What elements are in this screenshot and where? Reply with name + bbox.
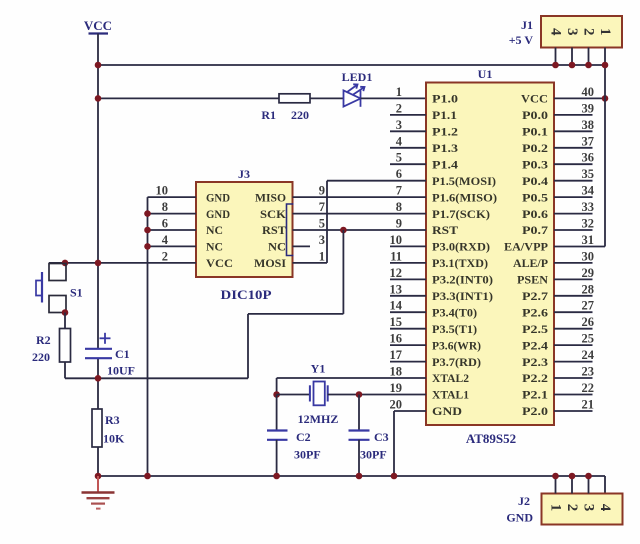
svg-text:GND: GND — [506, 511, 533, 525]
wire S1/VCC/J3-pin2 row — [49, 262, 196, 264]
svg-text:24: 24 — [582, 348, 595, 362]
svg-text:6: 6 — [396, 167, 402, 181]
wire U1 pin20 GND — [394, 410, 426, 412]
svg-text:1: 1 — [319, 249, 325, 263]
svg-text:12MHZ: 12MHZ — [298, 412, 339, 426]
svg-text:5: 5 — [319, 217, 325, 231]
svg-text:P1.4: P1.4 — [432, 157, 458, 171]
svg-text:P2.5: P2.5 — [522, 322, 548, 336]
svg-text:NC: NC — [268, 240, 286, 254]
svg-text:10K: 10K — [103, 432, 125, 446]
svg-text:P3.6(WR): P3.6(WR) — [432, 338, 481, 352]
svg-text:10: 10 — [156, 184, 169, 198]
wire R3 to ground rail — [97, 447, 99, 476]
svg-text:P0.0: P0.0 — [522, 108, 548, 122]
ground — [82, 476, 115, 509]
wire C3 to ground rail — [358, 440, 360, 476]
svg-text:R2: R2 — [36, 333, 51, 347]
wire J3 MOSI to U1 pin6 — [293, 262, 328, 264]
svg-text:MOSI: MOSI — [254, 256, 286, 270]
wire crystal left — [277, 394, 310, 396]
resistor R1 — [279, 94, 310, 103]
wire LED1 to U1 pin 1 — [361, 97, 427, 99]
wire C2 branch upper — [276, 395, 278, 431]
svg-text:P2.1: P2.1 — [522, 388, 548, 402]
svg-text:7: 7 — [319, 200, 325, 214]
svg-text:ALE/P: ALE/P — [513, 256, 548, 270]
svg-text:P3.5(T1): P3.5(T1) — [432, 322, 477, 336]
svg-text:C1: C1 — [115, 347, 130, 361]
wire RST node horizontal — [65, 377, 248, 379]
wire C2 to ground rail — [276, 440, 278, 476]
svg-text:Y1: Y1 — [311, 362, 326, 376]
wire S1 to R2 — [64, 313, 66, 329]
svg-text:+5 V: +5 V — [509, 33, 534, 47]
svg-text:3: 3 — [581, 504, 597, 512]
node gnd rail bus — [144, 473, 151, 480]
svg-text:5: 5 — [396, 151, 402, 165]
svg-text:3: 3 — [564, 28, 580, 36]
node J1-3 junction — [569, 62, 576, 69]
svg-text:GND: GND — [206, 190, 230, 204]
svg-text:220: 220 — [291, 108, 309, 122]
svg-text:1: 1 — [396, 85, 402, 99]
svg-text:10: 10 — [390, 233, 403, 247]
resistor R3 — [92, 409, 102, 447]
wire ground rail — [98, 475, 605, 477]
svg-text:RST: RST — [262, 223, 286, 237]
svg-text:P3.0(RXD): P3.0(RXD) — [432, 240, 490, 254]
svg-text:P1.6(MISO): P1.6(MISO) — [432, 190, 497, 204]
wire pin 40 VCC to J1 net — [554, 97, 605, 99]
svg-text:4: 4 — [597, 504, 613, 512]
node gnd rail C2 — [273, 473, 280, 480]
svg-text:7: 7 — [396, 184, 402, 198]
resistor R2 — [60, 329, 71, 363]
svg-text:R1: R1 — [261, 108, 276, 122]
svg-text:P0.3: P0.3 — [522, 157, 548, 171]
svg-text:XTAL1: XTAL1 — [432, 388, 469, 402]
svg-text:8: 8 — [162, 200, 168, 214]
svg-text:GND: GND — [206, 207, 230, 221]
node RST junction — [340, 227, 347, 234]
wire C3 branch upper — [358, 395, 360, 431]
svg-text:RST: RST — [432, 223, 458, 237]
svg-text:32: 32 — [582, 217, 595, 231]
svg-text:S1: S1 — [70, 286, 83, 300]
svg-text:SCK: SCK — [260, 207, 287, 221]
svg-text:1: 1 — [548, 504, 564, 512]
svg-text:J2: J2 — [518, 494, 530, 508]
node bus pin8 — [144, 210, 151, 217]
switch S1 bottom contact — [49, 296, 66, 313]
node VCC/top-rail junction — [95, 62, 102, 69]
svg-text:P0.6: P0.6 — [522, 207, 548, 221]
LED LED1 — [344, 84, 365, 107]
svg-text:19: 19 — [390, 381, 403, 395]
svg-text:10UF: 10UF — [107, 364, 135, 378]
capacitor C2 — [267, 429, 288, 431]
svg-text:27: 27 — [582, 299, 595, 313]
wire crystal right to U1 pin19 XTAL1 — [328, 394, 426, 396]
svg-text:21: 21 — [582, 398, 595, 412]
node J2-3 junction — [585, 473, 592, 480]
svg-text:P0.7: P0.7 — [522, 223, 548, 237]
svg-text:P1.7(SCK): P1.7(SCK) — [432, 207, 490, 221]
node gnd rail pin20 — [391, 473, 398, 480]
bracket marker on J3 right pins — [287, 204, 294, 256]
svg-text:P0.5: P0.5 — [522, 190, 548, 204]
svg-text:30PF: 30PF — [294, 448, 321, 462]
svg-text:23: 23 — [582, 365, 595, 379]
wire J3 MISO to U1 pin7 — [293, 196, 427, 198]
svg-text:P0.1: P0.1 — [522, 125, 548, 139]
svg-text:P3.7(RD): P3.7(RD) — [432, 355, 481, 369]
switch S1 top contact — [49, 264, 66, 281]
svg-text:C2: C2 — [296, 430, 311, 444]
node pin40/J1 junction — [602, 95, 609, 102]
svg-text:30: 30 — [582, 249, 595, 263]
svg-text:2: 2 — [564, 504, 580, 512]
wire VCC vertical lower (C1 to R3) — [97, 358, 99, 409]
svg-text:11: 11 — [390, 249, 402, 263]
svg-text:R3: R3 — [105, 413, 120, 427]
svg-text:P2.7: P2.7 — [522, 289, 548, 303]
svg-text:P3.3(INT1): P3.3(INT1) — [432, 289, 493, 303]
capacitor C1 — [85, 348, 112, 350]
svg-text:LED1: LED1 — [342, 70, 373, 84]
crystal Y1 — [314, 382, 325, 406]
svg-text:31: 31 — [582, 233, 595, 247]
svg-text:3: 3 — [319, 233, 325, 247]
svg-text:P1.2: P1.2 — [432, 125, 458, 139]
svg-text:2: 2 — [581, 28, 597, 36]
svg-text:VCC: VCC — [521, 92, 548, 106]
node crystal left junction — [273, 391, 280, 398]
wire R2 to RST node — [64, 362, 66, 378]
svg-text:25: 25 — [582, 332, 595, 346]
svg-text:VCC: VCC — [206, 256, 233, 270]
svg-text:EA/VPP: EA/VPP — [504, 240, 548, 254]
node bus pin4 — [144, 243, 151, 250]
svg-text:35: 35 — [582, 167, 595, 181]
svg-text:VCC: VCC — [84, 18, 112, 33]
svg-text:P2.6: P2.6 — [522, 305, 548, 319]
svg-text:P2.3: P2.3 — [522, 355, 548, 369]
svg-text:U1: U1 — [478, 67, 493, 81]
svg-text:9: 9 — [396, 217, 402, 231]
connector J3 body — [196, 182, 293, 277]
svg-text:4: 4 — [396, 134, 403, 148]
svg-text:6: 6 — [162, 217, 168, 231]
wire top rail VCC to J1 — [98, 64, 605, 66]
svg-text:4: 4 — [162, 233, 169, 247]
wire pin 31 EA/VPP to J1 net — [554, 246, 605, 248]
svg-text:29: 29 — [582, 266, 595, 280]
svg-text:P0.2: P0.2 — [522, 141, 548, 155]
svg-text:1: 1 — [597, 28, 613, 36]
svg-text:C3: C3 — [374, 430, 389, 444]
svg-text:9: 9 — [319, 184, 325, 198]
svg-text:22: 22 — [582, 381, 595, 395]
svg-text:XTAL2: XTAL2 — [432, 371, 469, 385]
node bus pin6 — [144, 227, 151, 234]
svg-text:P3.4(T0): P3.4(T0) — [432, 305, 477, 319]
svg-text:P3.1(TXD): P3.1(TXD) — [432, 256, 488, 270]
wire XTAL2 to U1 pin18 — [277, 377, 426, 379]
node gnd rail C3 — [356, 473, 363, 480]
wire J3 RST to U1 pin9 — [293, 229, 427, 231]
svg-text:33: 33 — [582, 200, 595, 214]
svg-text:14: 14 — [390, 299, 403, 313]
svg-text:2: 2 — [162, 249, 168, 263]
wire J3 SCK to U1 pin8 — [293, 213, 427, 215]
wire ground rail to J2 drop — [604, 476, 606, 494]
wire J3 NC stub — [293, 245, 311, 247]
node J1-2 junction — [585, 62, 592, 69]
svg-text:220: 220 — [32, 350, 50, 364]
svg-text:P2.0: P2.0 — [522, 404, 548, 418]
svg-text:P1.3: P1.3 — [432, 141, 458, 155]
svg-text:P2.2: P2.2 — [522, 371, 548, 385]
op-amp U1 AT89S52 body — [426, 83, 554, 426]
capacitor C3 — [349, 429, 370, 431]
node J1-4 junction — [552, 62, 559, 69]
node J1-1 junction — [602, 62, 609, 69]
svg-text:34: 34 — [582, 184, 595, 198]
node VCC/R1-rail junction — [95, 95, 102, 102]
svg-text:15: 15 — [390, 315, 403, 329]
node crystal right junction — [356, 391, 363, 398]
svg-text:3: 3 — [396, 118, 402, 132]
svg-text:38: 38 — [582, 118, 595, 132]
svg-text:GND: GND — [432, 404, 462, 418]
connector J2 body — [542, 494, 623, 525]
svg-text:8: 8 — [396, 200, 402, 214]
svg-text:40: 40 — [582, 85, 595, 99]
svg-text:J1: J1 — [521, 18, 533, 32]
svg-text:P0.4: P0.4 — [522, 174, 548, 188]
svg-text:36: 36 — [582, 151, 595, 165]
svg-text:PSEN: PSEN — [517, 273, 548, 287]
svg-text:37: 37 — [582, 134, 595, 148]
svg-text:17: 17 — [390, 348, 403, 362]
svg-text:16: 16 — [390, 332, 403, 346]
svg-text:NC: NC — [206, 223, 223, 237]
svg-text:DIC10P: DIC10P — [221, 287, 272, 302]
switch S1 plunger — [41, 272, 43, 303]
wire J1 vertical drop — [604, 65, 606, 247]
svg-text:P1.0: P1.0 — [432, 92, 458, 106]
svg-text:39: 39 — [582, 101, 595, 115]
wire VCC vertical upper (bar to C1) — [97, 34, 99, 349]
node J2-1 junction — [552, 473, 559, 480]
node VCC row junction — [95, 260, 102, 267]
node RST/C1/R3 junction — [95, 375, 102, 382]
svg-text:13: 13 — [390, 282, 403, 296]
wire J3 ground bus vertical — [147, 197, 149, 476]
svg-text:20: 20 — [390, 398, 403, 412]
svg-text:J3: J3 — [238, 167, 250, 181]
node S1 top junction — [62, 260, 69, 267]
svg-text:26: 26 — [582, 315, 595, 329]
svg-text:NC: NC — [206, 240, 223, 254]
svg-text:2: 2 — [396, 101, 402, 115]
node S1 bottom junction — [62, 309, 69, 316]
svg-text:4: 4 — [548, 28, 564, 36]
svg-text:P1.1: P1.1 — [432, 108, 457, 122]
svg-text:P2.4: P2.4 — [522, 338, 548, 352]
svg-text:12: 12 — [390, 266, 403, 280]
svg-text:MISO: MISO — [255, 190, 286, 204]
node J2-2 junction — [569, 473, 576, 480]
svg-text:P3.2(INT0): P3.2(INT0) — [432, 273, 493, 287]
connector J1 body — [541, 16, 622, 48]
wire second rail to R1 — [98, 97, 279, 99]
svg-text:18: 18 — [390, 365, 403, 379]
node gnd rail left — [95, 473, 102, 480]
svg-text:28: 28 — [582, 282, 595, 296]
svg-text:30PF: 30PF — [360, 448, 387, 462]
svg-text:P1.5(MOSI): P1.5(MOSI) — [432, 174, 496, 188]
svg-text:AT89S52: AT89S52 — [466, 431, 516, 446]
wire R1 to LED1 — [310, 97, 344, 99]
wire RST riser — [247, 314, 249, 378]
